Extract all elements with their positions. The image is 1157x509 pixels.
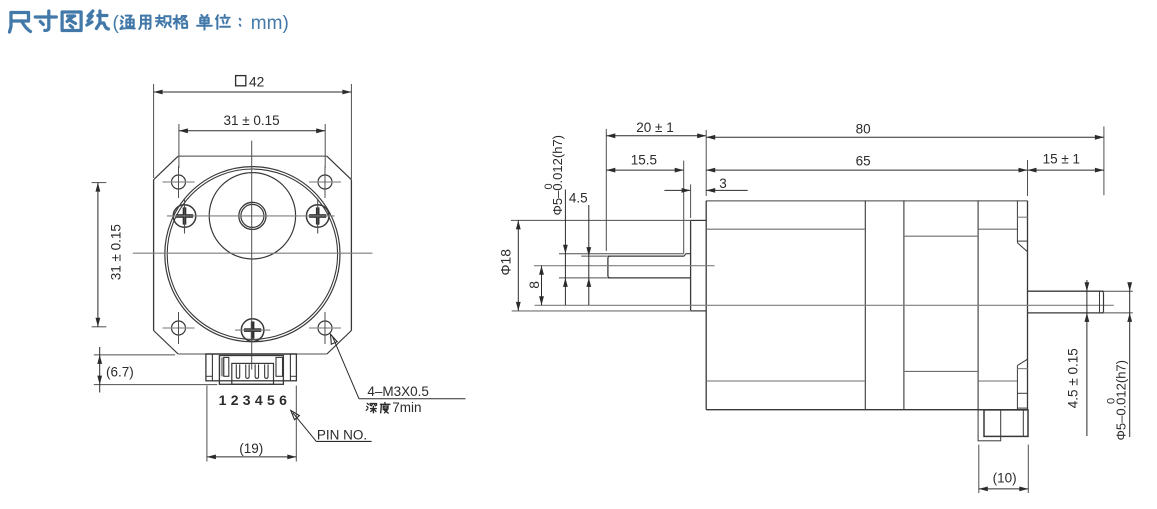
side chamfer line front bottom	[706, 380, 865, 382]
side body front face	[705, 201, 707, 410]
svg-text:5: 5	[267, 392, 275, 408]
svg-text:65: 65	[856, 154, 871, 169]
side body top edge	[706, 200, 1027, 202]
label PIN NO. leader	[293, 413, 317, 442]
label PIN NO. underline	[316, 440, 371, 442]
svg-text:2: 2	[231, 392, 239, 408]
front vertical centerline	[251, 141, 253, 370]
side section line 2	[903, 201, 905, 410]
front shaft horizontal centerline	[167, 215, 335, 217]
side chamfer line rear top	[978, 228, 1017, 230]
dim (10) extension right	[1027, 445, 1029, 493]
svg-text:mm): mm)	[251, 13, 289, 34]
dim 31v extension bottom	[92, 326, 107, 328]
4.5 flat extension line	[581, 255, 608, 257]
dim 65 line	[706, 169, 1027, 171]
title 尺寸图纸	[10, 13, 31, 33]
dim 19 line	[207, 456, 296, 458]
rear shaft	[1028, 290, 1104, 292]
dim 20±1 extension left	[605, 129, 607, 251]
side body rear face	[1027, 201, 1029, 410]
svg-text:42: 42	[249, 75, 264, 90]
rear endbell corner detail top	[1016, 201, 1018, 243]
side chamfer line front top	[706, 228, 865, 230]
svg-text:4–M3X0.5: 4–M3X0.5	[367, 384, 429, 399]
svg-text:8: 8	[527, 281, 542, 289]
connector front view	[206, 354, 297, 381]
gearbox screw left	[173, 205, 196, 228]
mounting hole bottom-right	[318, 321, 332, 335]
pilot boss outline	[691, 219, 707, 221]
svg-text:0: 0	[543, 183, 555, 189]
side chamfer line middle bottom	[904, 370, 978, 372]
dim 31v line	[97, 183, 99, 327]
dim 6.7 extension top	[94, 354, 175, 356]
dim Φ5h7 front line	[564, 190, 566, 306]
dim 15±1 extension right	[1103, 126, 1105, 195]
front flange horizontal centerline	[133, 252, 373, 254]
motor body circle inner	[167, 169, 337, 339]
dim 15±1 line	[1028, 169, 1104, 171]
dim Φ5h7 rear line	[1129, 283, 1131, 437]
flange left edge	[153, 180, 155, 331]
svg-text:20 ± 1: 20 ± 1	[636, 120, 673, 135]
svg-text:Φ18: Φ18	[499, 249, 514, 276]
svg-text:4.5: 4.5	[569, 191, 588, 206]
rear endbell corner detail bottom	[1016, 366, 1018, 410]
svg-text:80: 80	[856, 121, 871, 136]
motor axis centerline	[535, 304, 1114, 306]
svg-text:31 ± 0.15: 31 ± 0.15	[109, 224, 124, 280]
flange top edge	[178, 155, 327, 157]
svg-text:(6.7): (6.7)	[106, 365, 134, 380]
dim 8 line	[541, 266, 543, 306]
Φ18 top extension line	[511, 219, 691, 221]
flange chamfer top-left	[154, 156, 179, 180]
dim □42 extension right	[350, 84, 352, 179]
svg-text:7min: 7min	[392, 400, 421, 415]
dim 80 extension front	[705, 130, 707, 196]
dim 6.7 extension bottom	[94, 384, 218, 386]
dim 80 line	[706, 136, 1104, 138]
svg-text:4: 4	[255, 392, 263, 408]
flange chamfer bottom-right	[327, 331, 352, 355]
flange right edge	[350, 180, 352, 331]
dim 15.5 extension right	[683, 161, 685, 253]
svg-text:4.5 ± 0.15: 4.5 ± 0.15	[1065, 348, 1080, 408]
dim 3 extension	[690, 184, 692, 218]
dim □42 extension left	[153, 84, 155, 178]
pilot boss circle Φ18	[209, 173, 295, 259]
svg-text:3: 3	[243, 392, 251, 408]
side chamfer line middle top	[904, 235, 978, 237]
dim 15.5 line	[606, 169, 683, 171]
dim □42 text	[236, 76, 246, 86]
dim 15±1 extension left	[1027, 160, 1029, 196]
svg-text:Φ5–0.012(h7): Φ5–0.012(h7)	[550, 135, 565, 215]
Φ18 bottom extension line	[512, 310, 691, 312]
front shaft	[608, 255, 684, 257]
svg-text:15.5: 15.5	[631, 153, 657, 168]
dim 4.5±0.15 rear line	[1086, 280, 1088, 436]
svg-text:6: 6	[279, 392, 287, 408]
label 深度7min text	[366, 403, 376, 413]
shaft circle inner	[241, 204, 264, 227]
motor body circle outer	[165, 167, 340, 342]
side section line 3	[977, 201, 979, 410]
label 4-M3X0.5 leader	[331, 334, 338, 344]
svg-text:1: 1	[219, 392, 227, 408]
side body bottom edge	[706, 409, 1027, 411]
shaft circle outer	[239, 202, 266, 229]
front shaft centerline	[534, 265, 715, 267]
svg-text:31 ± 0.15: 31 ± 0.15	[223, 113, 279, 128]
dim 6.7 line	[99, 347, 101, 393]
svg-text:PIN NO.: PIN NO.	[317, 428, 367, 443]
dim 4.5 front line	[588, 205, 590, 305]
flange chamfer top-right	[327, 156, 352, 180]
dim 3 line	[664, 189, 690, 191]
gearbox screw bottom	[241, 319, 264, 342]
dim 19 extension right	[295, 386, 297, 462]
mounting hole top-left	[172, 175, 186, 189]
rear connector	[984, 410, 1028, 437]
svg-text:(: (	[113, 13, 120, 34]
svg-text:(19): (19)	[239, 441, 263, 456]
dim Φ18 line	[517, 220, 519, 311]
Φ5 bottom extension line	[559, 277, 608, 279]
svg-text:0: 0	[1106, 398, 1118, 404]
dim (10) extension left	[978, 445, 980, 493]
svg-text:3: 3	[719, 176, 727, 191]
dim 20±1 line	[606, 135, 706, 137]
side chamfer line rear bottom	[978, 380, 1017, 382]
dim (10) line	[979, 488, 1029, 490]
rear shaft top extension	[1104, 290, 1133, 292]
mounting hole bottom-left	[172, 321, 186, 335]
gearbox screw right	[306, 205, 329, 228]
Φ5 top extension line	[559, 253, 684, 255]
dim 31v extension top	[92, 182, 107, 184]
svg-text:15 ± 1: 15 ± 1	[1043, 152, 1080, 167]
dim 31h extension left	[178, 124, 180, 168]
dim 31h extension right	[324, 124, 326, 168]
flange bottom edge	[178, 353, 327, 355]
side section line 1	[864, 201, 866, 410]
dim 31h line	[179, 130, 325, 132]
dim □42 line	[154, 91, 352, 93]
mounting hole top-right	[318, 175, 332, 189]
dim 19 extension left	[206, 386, 208, 462]
flange chamfer bottom-left	[154, 331, 179, 355]
rear shaft bottom extension	[1104, 312, 1133, 314]
svg-text:(10): (10)	[993, 471, 1017, 486]
